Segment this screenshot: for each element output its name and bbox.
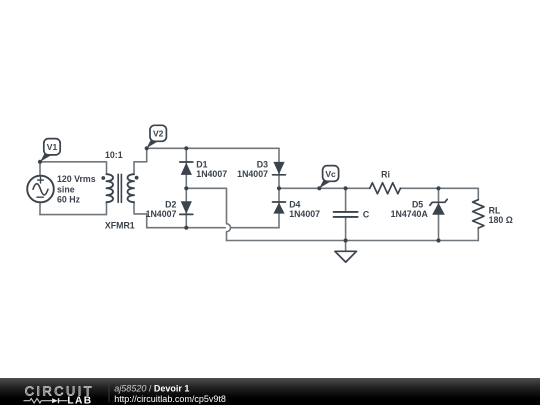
label: V1 value text	[57, 174, 96, 204]
label D4	[289, 199, 320, 219]
divider	[108, 381, 110, 402]
wire: bottom ground rail	[227, 240, 479, 242]
footer bar	[0, 378, 540, 405]
svg-text:LAB: LAB	[67, 395, 92, 405]
wire: top rail V2 to D1 and D3	[147, 147, 279, 149]
svg-text:V2: V2	[153, 129, 164, 139]
logo schematic: diode	[52, 398, 58, 403]
voltage source V1	[27, 176, 54, 203]
svg-text:10:1: 10:1	[105, 150, 123, 160]
junction dot: D5 bottom	[436, 238, 440, 242]
svg-text:C: C	[363, 210, 370, 220]
junction dot: C bottom / ground	[344, 238, 348, 242]
junction dot: D1 top	[184, 146, 188, 150]
wire: D1 branch vertical	[185, 148, 187, 188]
logo schematic: resistor	[30, 399, 41, 404]
svg-text:sine: sine	[57, 184, 75, 194]
wire: bridge negative node to ground rail (with hop)	[186, 188, 230, 240]
wire: D3 branch vertical	[278, 148, 280, 188]
diode D4	[273, 202, 286, 214]
svg-text:Vc: Vc	[325, 169, 336, 179]
label RL	[489, 206, 513, 226]
wire: RL leads	[477, 188, 479, 240]
ground	[335, 251, 357, 262]
diode D1	[180, 162, 193, 175]
svg-text:V1: V1	[47, 142, 58, 152]
svg-text:http://circuitlab.com/cp5v9t8: http://circuitlab.com/cp5v9t8	[114, 394, 226, 404]
svg-text:180 Ω: 180 Ω	[489, 215, 513, 225]
capacitor C	[334, 212, 358, 217]
svg-text:60 Hz: 60 Hz	[57, 194, 81, 204]
svg-text:D5: D5	[412, 199, 423, 209]
label D1	[196, 159, 227, 179]
secondary coil	[128, 174, 135, 202]
label D5	[391, 199, 429, 219]
svg-text:1N4007: 1N4007	[237, 169, 268, 179]
junction dot: D2 bottom	[184, 226, 188, 230]
logo schematic: wire	[41, 400, 52, 402]
svg-text:1N4007: 1N4007	[146, 209, 177, 219]
wire: D5 branch verticals	[438, 188, 440, 240]
junction dot: D1/D2 node	[184, 186, 188, 190]
resistor RL	[473, 200, 484, 228]
svg-text:RL: RL	[489, 206, 501, 216]
resistor Ri	[370, 183, 401, 194]
wire: capacitor C branch	[345, 188, 347, 240]
wire: V1 top lead	[39, 162, 41, 176]
primary coil	[107, 174, 114, 202]
diode D3	[273, 162, 286, 175]
wire: top rail V1 to XFMR1 primary	[40, 162, 107, 174]
phase dot secondary	[135, 176, 139, 180]
svg-text:aj58520 / Devoir 1: aj58520 / Devoir 1	[114, 384, 189, 394]
wire: D2 branch vertical	[185, 188, 187, 227]
core lines	[118, 174, 121, 202]
junction dot: V1 flag attach	[38, 160, 42, 164]
junction dot: C top	[344, 186, 348, 190]
logo schematic: wire	[24, 400, 30, 402]
wire: D4 branch vertical	[278, 188, 280, 227]
node flag V2	[147, 125, 167, 148]
zener diode D5	[430, 199, 447, 214]
svg-text:D1: D1	[196, 159, 207, 169]
phase dot primary	[101, 176, 105, 180]
wire: V1 bottom lead	[39, 202, 41, 214]
diode D2	[180, 201, 193, 214]
svg-text:120 Vrms: 120 Vrms	[57, 174, 96, 184]
junction dot: D5 top	[436, 186, 440, 190]
junction dot: V2 node	[145, 146, 149, 150]
wire: Vc rail from bridge to Ri and RL	[279, 187, 478, 189]
svg-text:1N4740A: 1N4740A	[391, 209, 429, 219]
svg-text:D3: D3	[257, 159, 268, 169]
transformer XFMR1	[107, 174, 135, 202]
wire: secondary top to node V2	[134, 148, 147, 174]
node flag V1	[40, 139, 60, 162]
svg-text:Ri: Ri	[381, 169, 390, 179]
node flag Vc	[319, 166, 338, 189]
label D2	[146, 199, 177, 219]
junction dot: D3/D4 node	[277, 186, 281, 190]
svg-text:1N4007: 1N4007	[196, 169, 227, 179]
wire: secondary bottom to bridge bottom rail	[134, 202, 279, 228]
svg-text:D2: D2	[165, 199, 176, 209]
svg-text:XFMR1: XFMR1	[105, 221, 135, 231]
svg-text:D4: D4	[289, 199, 300, 209]
wire: bottom rail V1 to XFMR1 primary	[40, 202, 107, 215]
wire: ground stub	[345, 241, 347, 252]
svg-text:1N4007: 1N4007	[289, 209, 320, 219]
junction dot: Vc flag attach	[317, 186, 321, 190]
label D3	[237, 159, 268, 179]
